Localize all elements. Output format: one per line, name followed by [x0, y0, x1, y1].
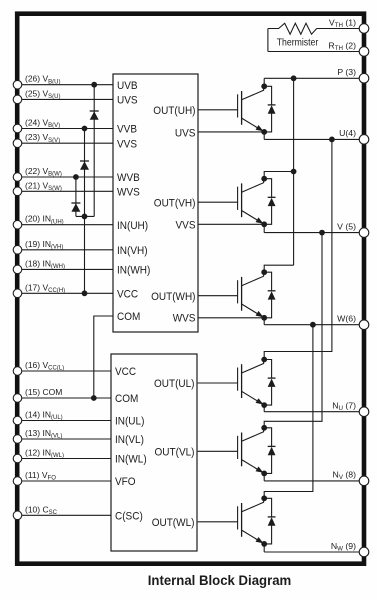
IGBT W-phase high-side with freewheel diode — [198, 269, 276, 320]
wire to U (4) — [264, 138, 364, 140]
IGBT W-phase low-side with freewheel diode — [198, 495, 276, 546]
terminal circle NV (8) — [359, 476, 369, 486]
svg-text:VVS: VVS — [176, 219, 196, 231]
svg-text:IN(UH): IN(UH) — [117, 220, 148, 232]
wire from pin (24) VB(V) — [18, 128, 114, 130]
svg-text:(15) COM: (15) COM — [25, 387, 62, 397]
bootstrap diode D(U) — [90, 111, 99, 120]
bootstrap wire to VVB — [84, 129, 86, 294]
svg-text:NU (7): NU (7) — [332, 401, 356, 413]
svg-text:OUT(VL): OUT(VL) — [155, 447, 195, 459]
terminal circle pin (14) IN(UL) — [13, 416, 22, 425]
terminal circle RTH (2) — [359, 47, 369, 57]
bootstrap diode D(V) — [80, 161, 89, 170]
IGBT U-phase high-side with freewheel diode — [198, 83, 276, 134]
wire to W (6) — [264, 324, 364, 326]
bootstrap wire to UVB — [93, 85, 95, 217]
wire V-low emitter jog to N_V — [263, 473, 265, 481]
svg-text:NW (9): NW (9) — [331, 541, 356, 553]
wire from pin (20) IN(UH) — [18, 224, 114, 226]
terminal circle pin (10) CSC — [13, 511, 22, 520]
svg-text:COM: COM — [115, 393, 138, 405]
bootstrap common bar — [76, 215, 94, 217]
terminal circle pin (16) VCC(L) — [13, 367, 22, 376]
svg-text:NV (8): NV (8) — [333, 470, 357, 482]
terminal circle NU (7) — [359, 407, 369, 417]
terminal circle pin (15) COM — [13, 394, 22, 403]
svg-text:WVS: WVS — [117, 187, 140, 199]
wire P rail to V-high collector — [264, 172, 293, 179]
IGBT V-phase low-side with freewheel diode — [198, 425, 276, 476]
wire from pin (15) COM — [18, 397, 112, 399]
terminal circle V (5) — [359, 228, 369, 238]
svg-text:V (5): V (5) — [337, 221, 356, 231]
svg-text:UVS: UVS — [117, 95, 138, 107]
terminal circle pin (12) IN(WL) — [13, 454, 22, 463]
junction dot VVB — [82, 126, 88, 132]
thermistor left lead wire — [267, 29, 269, 52]
svg-text:VCC: VCC — [115, 366, 136, 378]
svg-text:OUT(WL): OUT(WL) — [152, 517, 195, 529]
terminal circle P (3) — [359, 74, 369, 84]
bootstrap wire to WVB — [75, 177, 77, 216]
wire to V (5) — [264, 232, 364, 234]
wire from pin (26) VB(U) — [18, 84, 114, 86]
wire from pin (10) CSC — [18, 514, 112, 516]
svg-text:VVS: VVS — [117, 138, 137, 150]
svg-text:IN(VH): IN(VH) — [117, 245, 148, 257]
wire from pin (18) IN(WH) — [18, 268, 114, 270]
junction dot V line — [319, 230, 325, 236]
wire V-high emitter jog to V line — [263, 224, 265, 232]
wire U-high emitter jog to U line — [263, 132, 265, 140]
terminal circle pin (25) VS(U) — [13, 95, 22, 104]
svg-text:C(SC): C(SC) — [115, 511, 143, 523]
svg-text:VVB: VVB — [117, 124, 137, 136]
upper gate-drive block (high side) — [113, 74, 198, 332]
svg-text:Thermister: Thermister — [277, 37, 319, 48]
svg-text:IN(WH): IN(WH) — [117, 265, 150, 277]
wire U-high collector to P — [263, 78, 265, 86]
IGBT V-phase high-side with freewheel diode — [198, 176, 276, 227]
svg-text:WVB: WVB — [117, 172, 140, 184]
svg-text:IN(VL): IN(VL) — [115, 434, 144, 446]
COM wire from upper block to pin (15) — [94, 316, 113, 398]
svg-text:IN(UL): IN(UL) — [115, 416, 144, 428]
svg-text:W(6): W(6) — [337, 314, 356, 324]
junction dot P rail mid — [291, 169, 297, 175]
wire from pin (22) VB(W) — [18, 176, 114, 178]
terminal circle NW (9) — [359, 547, 369, 557]
svg-text:IN(WL): IN(WL) — [115, 454, 147, 466]
wire to NU (7) — [264, 411, 364, 413]
wire from pin (25) VS(U) — [18, 98, 114, 100]
terminal circle U (4) — [359, 135, 369, 145]
wire to P (3) — [264, 77, 364, 79]
svg-text:VCC: VCC — [117, 289, 138, 301]
wire from pin (12) IN(WL) — [18, 458, 112, 460]
svg-text:VTH (1): VTH (1) — [329, 17, 356, 29]
terminal circle pin (17) VCC(H) — [13, 289, 22, 298]
wire W-high emitter jog to W line — [263, 318, 265, 325]
P bus vertical rail — [293, 78, 295, 265]
terminal circle pin (22) VB(W) — [13, 173, 22, 182]
svg-text:OUT(VH): OUT(VH) — [154, 197, 196, 209]
svg-text:UVS: UVS — [175, 128, 196, 140]
IGBT U-phase low-side with freewheel diode — [198, 357, 276, 408]
junction dot WVB — [73, 174, 79, 180]
terminal circle pin (26) VB(U) — [13, 80, 22, 89]
lower gate-drive block (low side) — [111, 354, 197, 551]
svg-text:OUT(UL): OUT(UL) — [154, 378, 195, 390]
junction dot UVB — [91, 82, 97, 88]
svg-text:VFO: VFO — [115, 476, 136, 488]
svg-text:COM: COM — [117, 311, 140, 323]
terminal circle W (6) — [359, 320, 369, 330]
wire WVS to W-high emitter — [198, 317, 264, 319]
wire to NV (8) — [264, 480, 364, 482]
terminal circle pin (13) IN(VL) — [13, 435, 22, 444]
wire from pin (16) VCC(L) — [18, 370, 112, 372]
svg-text:Internal Block Diagram: Internal Block Diagram — [148, 573, 292, 588]
wire from pin (13) IN(VL) — [18, 438, 112, 440]
wire from pin (23) VS(V) — [18, 142, 114, 144]
U line descent to U-low collector — [264, 139, 332, 359]
terminal circle VTH (1) — [359, 24, 369, 34]
terminal circle pin (21) VS(W) — [13, 187, 22, 196]
svg-text:OUT(UH): OUT(UH) — [153, 105, 195, 117]
wire UVS to U-high emitter — [198, 131, 264, 133]
wire W-low emitter jog to N_W — [263, 544, 265, 552]
bootstrap diode D(W) — [71, 203, 80, 212]
svg-text:P (3): P (3) — [337, 67, 356, 77]
wire P rail to W-high collector — [264, 265, 293, 272]
svg-text:OUT(WH): OUT(WH) — [151, 291, 195, 303]
wire to VTH (1) — [317, 28, 364, 30]
svg-text:RTH (2): RTH (2) — [328, 40, 356, 52]
junction dot bootstrap bar — [82, 214, 88, 220]
svg-text:UVB: UVB — [117, 80, 138, 92]
wire U-low emitter jog to N_U — [263, 405, 265, 412]
wire from pin (11) VFO — [18, 480, 112, 482]
junction dot at VCC wire — [82, 290, 88, 296]
wire to NW (9) — [264, 551, 364, 553]
wire VVS to V-high emitter — [198, 223, 264, 225]
W line descent to W-low collector — [264, 325, 313, 499]
terminal circle pin (20) IN(UH) — [13, 220, 22, 229]
junction dot COM — [91, 395, 97, 401]
V line descent to V-low collector — [264, 233, 322, 428]
wire from pin (19) IN(VH) — [18, 249, 114, 251]
svg-text:WVS: WVS — [173, 313, 196, 325]
thermistor resistor symbol — [268, 23, 317, 34]
wire from pin (17) VCC(H) — [18, 292, 114, 294]
junction dot W line — [310, 322, 316, 328]
wire to RTH (2) — [268, 51, 364, 53]
terminal circle pin (19) IN(VH) — [13, 246, 22, 255]
wire from pin (21) VS(W) — [18, 190, 114, 192]
terminal circle pin (11) VFO — [13, 477, 22, 486]
terminal circle pin (24) VB(V) — [13, 124, 22, 133]
svg-text:U(4): U(4) — [339, 128, 356, 138]
junction dot U line — [329, 137, 335, 143]
junction dot P rail top — [291, 75, 297, 81]
terminal circle pin (18) IN(WH) — [13, 265, 22, 274]
wire from pin (14) IN(UL) — [18, 420, 112, 422]
terminal circle pin (23) VS(V) — [13, 139, 22, 148]
